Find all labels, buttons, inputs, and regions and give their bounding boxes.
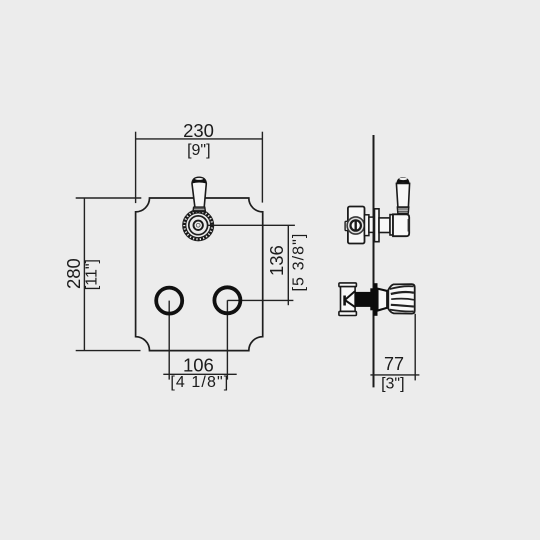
svg-text:77: 77: [384, 354, 404, 374]
side volume knob flute 3: [391, 299, 414, 300]
side lever black cap: [396, 177, 409, 183]
svg-text:280: 280: [63, 258, 84, 289]
dimension 77 line: [370, 374, 419, 376]
dimension 280 line: [83, 198, 85, 351]
side thermostat left tab: [345, 221, 348, 230]
side volume knob left collar line: [387, 290, 389, 309]
lever base knurled outer ring: [183, 210, 214, 241]
side volume valve spool body: [341, 287, 356, 312]
side volume knob flute 5: [390, 310, 414, 312]
side lever collar line 1: [398, 208, 409, 210]
side lever hub: [393, 214, 409, 236]
front lever handle body: [192, 177, 206, 207]
side lever collar: [397, 207, 409, 213]
extension line down from right knob center: [226, 300, 228, 379]
lever base inner ring: [189, 216, 208, 235]
side volume stem trapezoid: [378, 289, 388, 311]
front lever handle black cap: [192, 178, 206, 184]
extension line down from left knob center: [168, 301, 170, 380]
svg-text:230: 230: [183, 120, 214, 141]
svg-text:106: 106: [183, 355, 214, 376]
front lever collar: [193, 207, 205, 211]
leader line from lever center to 136 dimension: [208, 224, 295, 226]
right knob ring: [214, 287, 240, 313]
dimension 230 right extension: [261, 132, 263, 203]
lever base middle ring: [186, 213, 211, 238]
svg-text:[3"]: [3"]: [381, 376, 404, 393]
side volume valve chevron: [345, 291, 355, 307]
side thermostat port slot: [355, 221, 357, 230]
lever base hub ring: [194, 221, 203, 230]
side lever cap highlight: [399, 178, 407, 180]
side view: wall plate line: [373, 135, 375, 387]
side thermostat port inner circle: [351, 220, 361, 230]
front lever cap highlight: [195, 178, 203, 180]
svg-text:[11"]: [11"]: [83, 259, 100, 290]
side volume knob: [388, 284, 415, 314]
front lever collar line 2: [193, 209, 205, 211]
side thermostat step tab 2: [369, 217, 374, 232]
dimension 230 left extension: [135, 132, 137, 203]
front lever collar line 1: [193, 208, 205, 210]
side escutcheon flange top: [375, 209, 380, 242]
side wall section step near plate: [370, 288, 373, 310]
dimension 106 line: [163, 373, 236, 375]
side volume valve chevron bar: [343, 296, 346, 306]
side thermostat valve body: [348, 207, 365, 244]
svg-text:[9"]: [9"]: [187, 142, 210, 159]
svg-text:136: 136: [266, 245, 287, 276]
side wall section black: [355, 292, 374, 307]
side thermostat port outer circle: [347, 217, 364, 234]
side thermostat step tab 1: [365, 215, 369, 236]
side lever body: [396, 183, 409, 207]
lever base center dot ring: [196, 223, 200, 227]
side lever collar line 2: [398, 210, 409, 212]
dimension 280 top extension: [76, 197, 142, 199]
dimension 136 line: [287, 225, 289, 305]
side volume knob flute 2: [391, 292, 414, 294]
leader line from right knob center to 136 dimension: [227, 299, 293, 301]
side washer: [390, 215, 393, 235]
side volume valve spool bottom bar: [339, 311, 357, 315]
side volume flange black: [373, 283, 377, 316]
side volume knob flute 1: [390, 286, 414, 289]
front view: escutcheon plate outline with concave clipped corners: [136, 198, 263, 351]
side stem top: [379, 218, 390, 233]
dimension 280 bottom extension: [76, 350, 141, 352]
side volume valve spool top bar: [339, 283, 357, 287]
side lever hub right shading: [408, 219, 410, 232]
dimension 230 line: [136, 138, 263, 140]
svg-text:[4 1/8"]: [4 1/8"]: [170, 374, 229, 391]
svg-text:[5 3/8"]: [5 3/8"]: [290, 233, 307, 292]
side volume knob flute 4: [391, 305, 414, 307]
dimension 77 right extension: [414, 314, 416, 381]
left knob ring: [156, 288, 182, 314]
